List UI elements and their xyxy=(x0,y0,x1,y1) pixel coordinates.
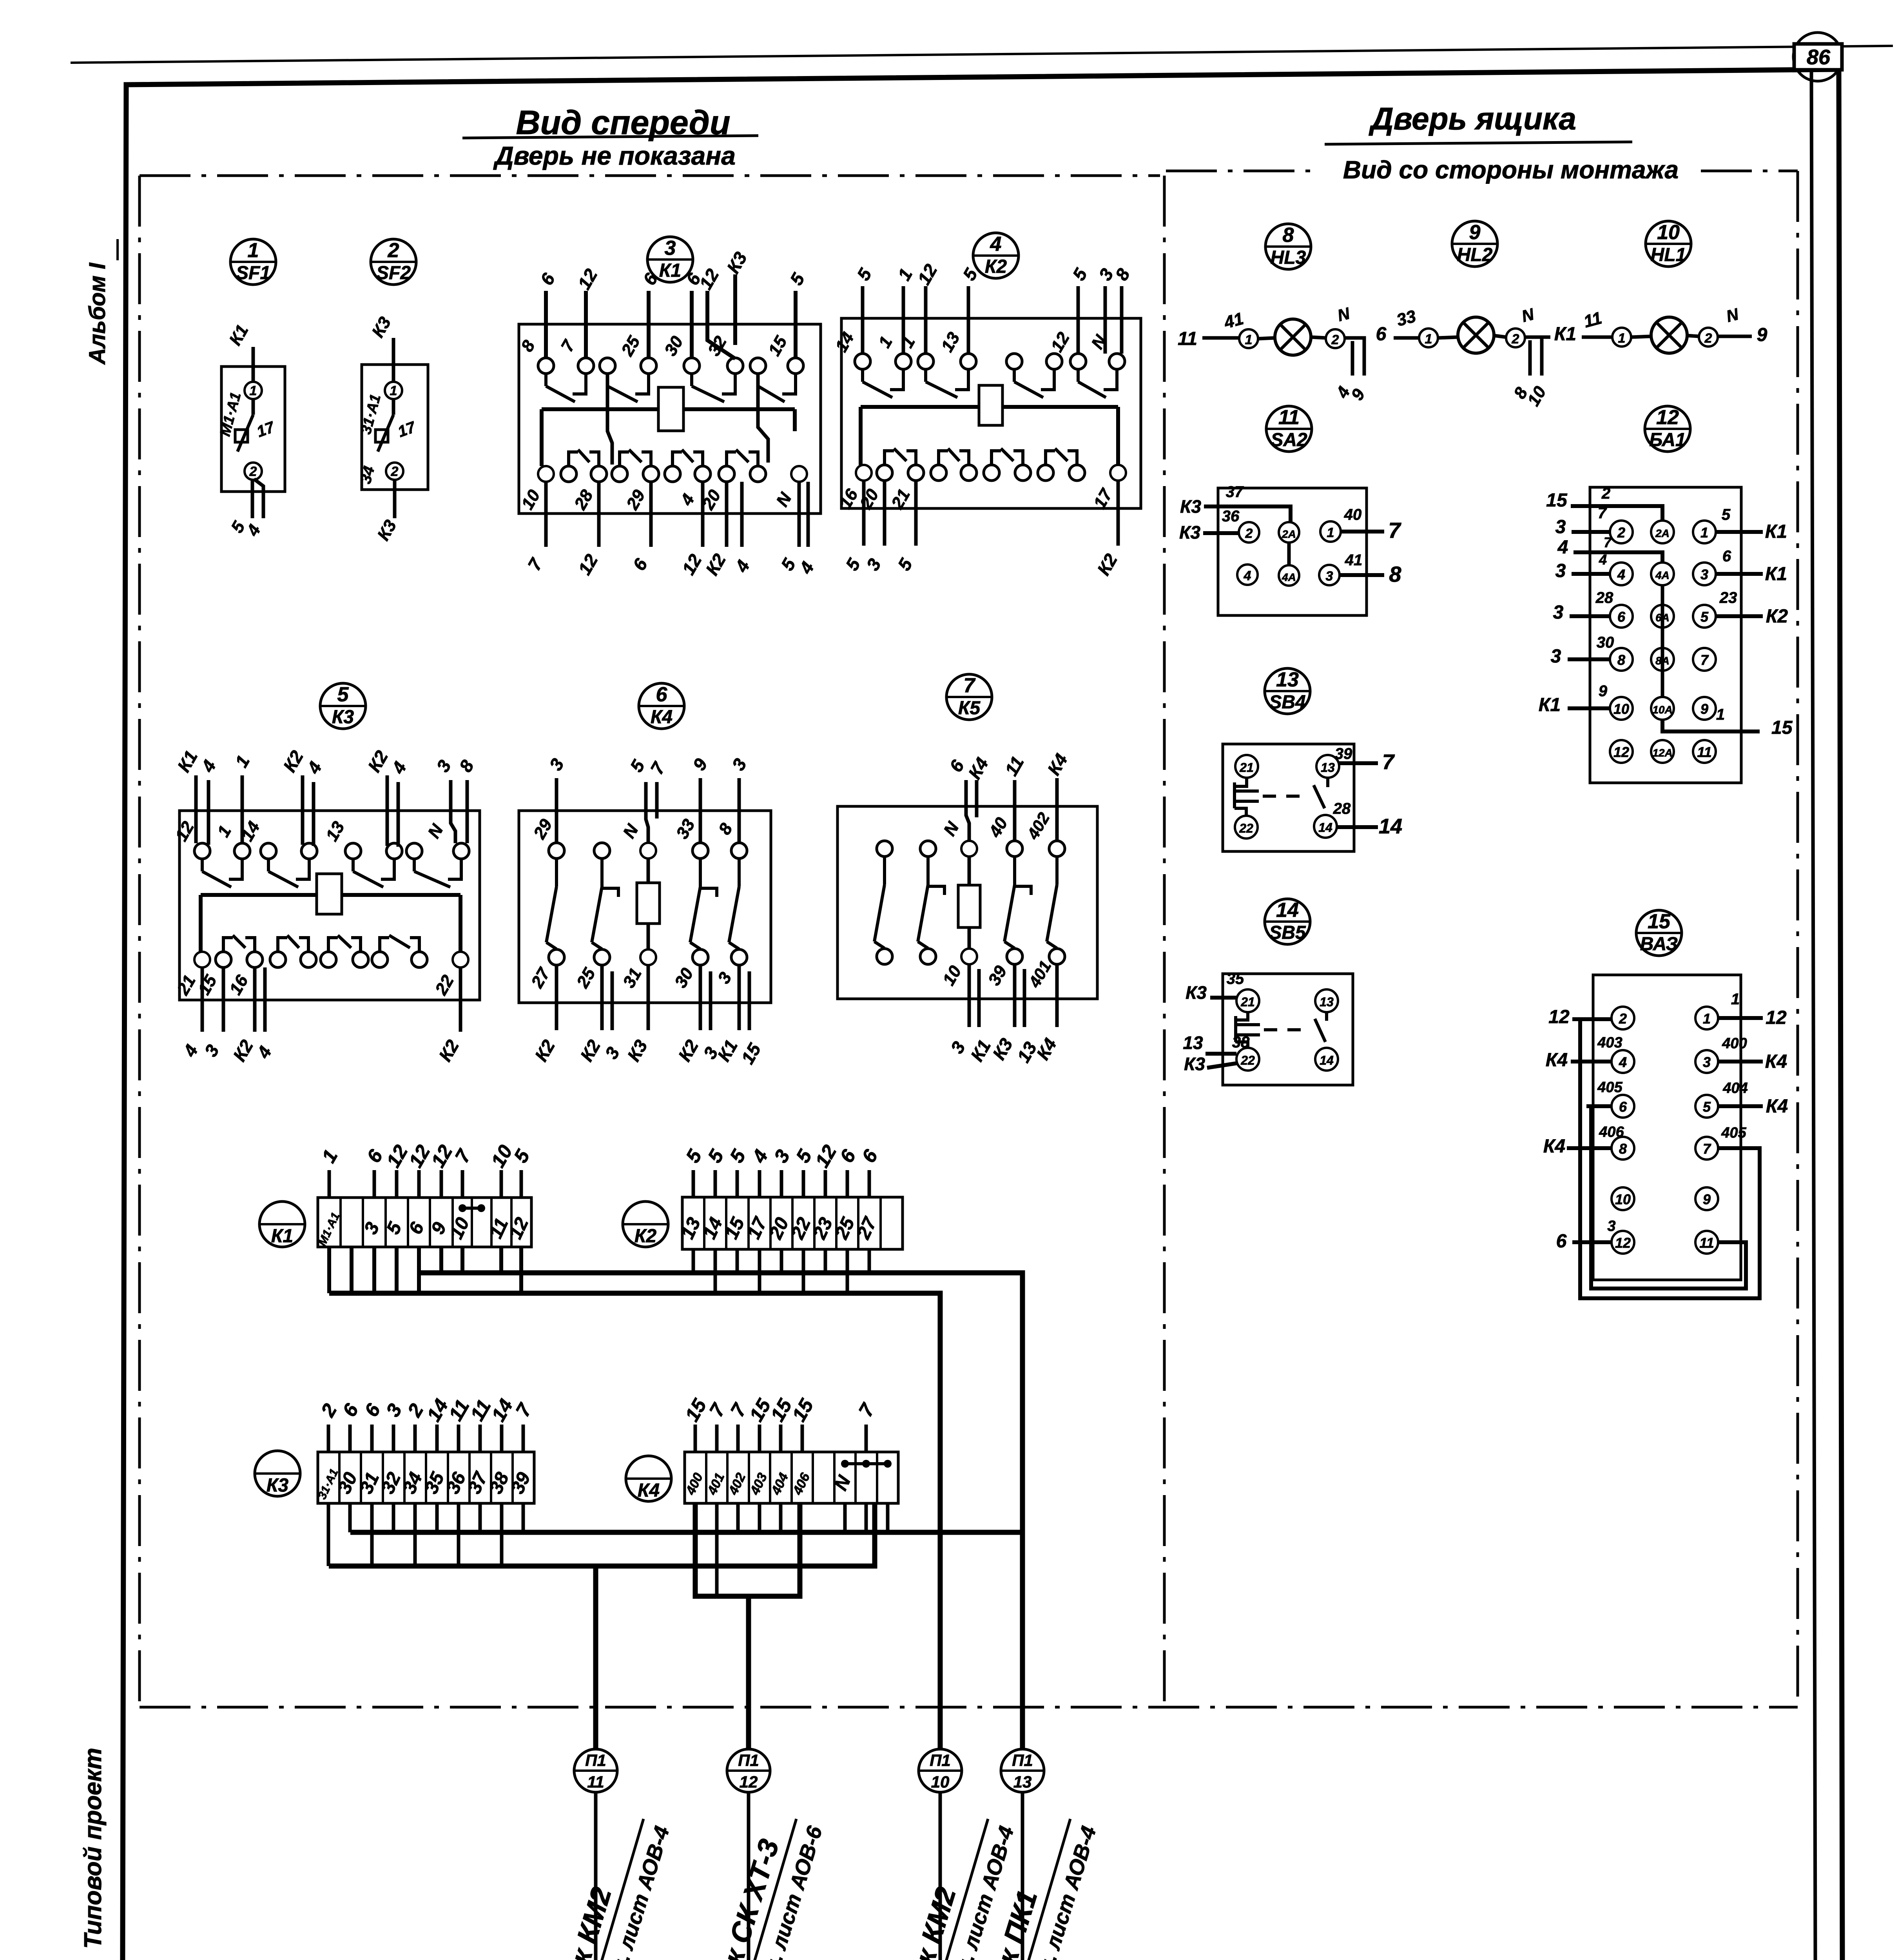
svg-text:10: 10 xyxy=(1613,701,1629,717)
svg-text:22: 22 xyxy=(1240,1053,1255,1067)
svg-text:14: 14 xyxy=(1318,820,1332,835)
strip designator K3 xyxy=(255,1451,300,1496)
svg-text:28: 28 xyxy=(1595,589,1613,606)
svg-text:5: 5 xyxy=(337,683,349,706)
svg-text:5: 5 xyxy=(1700,609,1709,625)
svg-text:13: 13 xyxy=(1183,1033,1203,1053)
svg-text:405: 405 xyxy=(1721,1125,1746,1141)
svg-text:28: 28 xyxy=(1333,800,1351,817)
svg-text:К1: К1 xyxy=(1765,521,1787,542)
wire bus C xyxy=(350,1530,1022,1535)
svg-text:5: 5 xyxy=(1703,1099,1711,1115)
svg-text:Дверь ящика: Дверь ящика xyxy=(1369,101,1576,136)
outer thin border top xyxy=(71,46,1893,63)
svg-text:1: 1 xyxy=(1327,525,1334,540)
svg-text:4: 4 xyxy=(1617,566,1625,583)
svg-text:13: 13 xyxy=(1320,995,1334,1009)
svg-text:12: 12 xyxy=(1766,1007,1787,1028)
svg-text:П1: П1 xyxy=(738,1751,759,1769)
svg-text:П1: П1 xyxy=(930,1751,951,1769)
svg-text:2: 2 xyxy=(1245,526,1253,541)
svg-text:1: 1 xyxy=(248,239,259,262)
svg-text:К1: К1 xyxy=(1554,324,1576,345)
svg-text:404: 404 xyxy=(1722,1080,1748,1096)
connector VA3 xyxy=(1543,975,1788,1298)
dash-dot boundary center divider xyxy=(1163,176,1166,1707)
strip designator K1 xyxy=(259,1201,305,1247)
svg-text:13: 13 xyxy=(1013,1773,1032,1791)
svg-text:2А: 2А xyxy=(1282,528,1296,540)
svg-text:4: 4 xyxy=(990,233,1002,256)
svg-text:6: 6 xyxy=(1619,1099,1627,1115)
relay K3 xyxy=(172,747,480,1065)
designator 5/K3 xyxy=(320,683,366,729)
svg-text:Типовой проект: Типовой проект xyxy=(80,1748,107,1949)
svg-text:3: 3 xyxy=(1555,561,1566,581)
svg-text:2А: 2А xyxy=(1655,527,1670,539)
svg-text:23: 23 xyxy=(1719,589,1737,606)
relay K2 xyxy=(832,260,1141,579)
svg-text:1: 1 xyxy=(1716,706,1725,723)
svg-text:К4: К4 xyxy=(1543,1136,1565,1157)
svg-text:2: 2 xyxy=(1617,524,1625,541)
svg-text:К3: К3 xyxy=(1179,522,1200,543)
svg-text:406: 406 xyxy=(1599,1124,1624,1140)
wire bus A xyxy=(420,1273,1022,1749)
svg-text:6: 6 xyxy=(1556,1231,1567,1252)
title underline xyxy=(462,136,758,138)
designator 15/VA3 xyxy=(1636,910,1682,956)
svg-text:30: 30 xyxy=(1597,634,1614,651)
svg-text:6: 6 xyxy=(656,683,668,706)
svg-text:К3: К3 xyxy=(266,1475,289,1496)
svg-text:3: 3 xyxy=(1700,566,1708,583)
terminal strip K3 xyxy=(315,1395,536,1566)
dash-dot boundary left xyxy=(138,176,141,1707)
svg-text:К3: К3 xyxy=(1184,1054,1205,1074)
svg-text:10: 10 xyxy=(1657,221,1680,244)
svg-text:9: 9 xyxy=(1757,325,1767,345)
button SB5 xyxy=(1183,970,1353,1085)
svg-text:11: 11 xyxy=(1178,328,1197,349)
svg-text:11: 11 xyxy=(1699,1235,1714,1251)
designator 14/SB5 xyxy=(1265,899,1310,944)
svg-text:41: 41 xyxy=(1345,552,1363,569)
svg-text:403: 403 xyxy=(1597,1034,1622,1051)
svg-text:8: 8 xyxy=(1619,1141,1627,1157)
svg-text:HL3: HL3 xyxy=(1271,247,1306,268)
svg-text:10А: 10А xyxy=(1652,704,1672,716)
switch SA2 xyxy=(1179,483,1401,615)
svg-text:К3: К3 xyxy=(332,707,354,728)
terminal strip K2 xyxy=(677,1141,903,1293)
cable marker P1/12 xyxy=(718,1729,827,1960)
svg-text:12: 12 xyxy=(1656,406,1679,429)
svg-text:14: 14 xyxy=(1320,1053,1334,1067)
svg-text:3: 3 xyxy=(1607,1218,1615,1234)
svg-text:12: 12 xyxy=(740,1773,758,1791)
svg-text:13: 13 xyxy=(1276,668,1299,691)
svg-text:К1: К1 xyxy=(1539,695,1561,715)
svg-text:Вид со стороны монтажа: Вид со стороны монтажа xyxy=(1343,156,1679,184)
designator 6/K4 xyxy=(639,683,684,729)
dash-dot boundary bottom xyxy=(140,1706,1798,1709)
svg-text:22: 22 xyxy=(1239,821,1253,835)
wire U-loop under K4 xyxy=(695,1503,800,1596)
svg-text:38: 38 xyxy=(1232,1034,1250,1051)
svg-text:13: 13 xyxy=(1321,760,1335,775)
cable marker P1/11 xyxy=(565,1729,674,1960)
breaker SF2 xyxy=(357,314,428,544)
dash-dot boundary top right half xyxy=(1166,170,1319,172)
svg-text:8: 8 xyxy=(1283,224,1294,247)
designator 9/HL2 xyxy=(1452,221,1497,267)
svg-text:2: 2 xyxy=(391,464,399,479)
svg-text:10: 10 xyxy=(1615,1191,1631,1207)
svg-text:39: 39 xyxy=(1335,745,1352,762)
svg-text:40: 40 xyxy=(1344,506,1362,523)
svg-text:36: 36 xyxy=(1222,508,1240,525)
svg-text:7: 7 xyxy=(1604,534,1612,550)
strip designator K4 xyxy=(626,1456,671,1501)
designator 7/K5 xyxy=(946,674,992,720)
svg-text:К4: К4 xyxy=(638,1480,660,1501)
svg-text:2: 2 xyxy=(1704,331,1712,346)
svg-text:7: 7 xyxy=(964,674,976,697)
title underline right xyxy=(1325,142,1632,144)
svg-text:4А: 4А xyxy=(1655,569,1670,581)
svg-text:7: 7 xyxy=(1703,1141,1711,1157)
svg-text:4: 4 xyxy=(1599,552,1607,568)
svg-text:6: 6 xyxy=(1376,324,1387,345)
svg-text:4: 4 xyxy=(1619,1054,1627,1070)
svg-text:3: 3 xyxy=(665,237,676,260)
svg-text:К2: К2 xyxy=(634,1226,657,1247)
svg-text:37: 37 xyxy=(1226,483,1244,501)
svg-text:15: 15 xyxy=(1648,910,1671,933)
svg-text:6: 6 xyxy=(1722,548,1731,565)
relay K4 xyxy=(519,755,771,1068)
svg-text:7: 7 xyxy=(1388,518,1401,543)
svg-text:2: 2 xyxy=(1619,1011,1627,1027)
svg-text:15: 15 xyxy=(1546,490,1568,511)
svg-text:86: 86 xyxy=(1807,45,1831,69)
svg-text:Альбом I: Альбом I xyxy=(85,262,110,365)
relay K5 xyxy=(838,750,1097,1066)
svg-text:400: 400 xyxy=(1722,1035,1747,1052)
wire feeder to P1/12 xyxy=(746,1596,751,1749)
svg-text:9: 9 xyxy=(1599,682,1608,700)
dash-dot boundary top left half xyxy=(140,174,1160,177)
svg-text:SA2: SA2 xyxy=(1271,430,1307,450)
svg-text:8: 8 xyxy=(1389,562,1401,586)
svg-text:2: 2 xyxy=(249,464,257,479)
svg-text:3: 3 xyxy=(1326,569,1333,584)
svg-text:11: 11 xyxy=(1697,744,1711,760)
svg-text:2: 2 xyxy=(1512,332,1519,347)
svg-text:1: 1 xyxy=(250,383,257,398)
svg-text:3: 3 xyxy=(1553,602,1564,623)
svg-text:П1: П1 xyxy=(1012,1751,1033,1769)
svg-text:4: 4 xyxy=(1557,537,1568,558)
svg-text:SB5: SB5 xyxy=(1269,922,1306,943)
lamp circuit HL3 xyxy=(1178,304,1369,404)
svg-text:14: 14 xyxy=(1276,899,1299,922)
designator 11/SA2 xyxy=(1266,406,1312,452)
svg-text:1: 1 xyxy=(1245,332,1253,347)
breaker SF1 xyxy=(217,321,285,539)
svg-text:3: 3 xyxy=(1555,517,1566,537)
svg-text:8: 8 xyxy=(1617,652,1625,668)
svg-text:12А: 12А xyxy=(1652,747,1672,759)
svg-text:12: 12 xyxy=(1548,1007,1570,1027)
svg-text:7: 7 xyxy=(1598,505,1607,522)
svg-text:К4: К4 xyxy=(1766,1096,1788,1117)
page number 86 box xyxy=(1793,33,1842,81)
svg-text:SF2: SF2 xyxy=(376,263,411,283)
svg-text:21: 21 xyxy=(1240,995,1255,1009)
svg-text:1: 1 xyxy=(1731,991,1740,1008)
svg-text:4А: 4А xyxy=(1282,571,1296,583)
designator 13/SB4 xyxy=(1265,668,1310,714)
svg-text:SB4: SB4 xyxy=(1269,692,1305,713)
svg-text:К3: К3 xyxy=(1186,982,1207,1003)
cable marker P1/10 xyxy=(909,1729,1019,1960)
svg-text:ВАЗ: ВАЗ xyxy=(1640,934,1678,955)
strip designator K2 xyxy=(623,1201,668,1247)
wire bus D xyxy=(329,1504,875,1566)
svg-text:9: 9 xyxy=(1700,701,1708,717)
designator 3/K1 xyxy=(647,237,693,282)
designator 10/HL1 xyxy=(1646,221,1691,267)
lamp circuit HL2 xyxy=(1376,305,1576,409)
svg-text:10: 10 xyxy=(931,1773,950,1791)
svg-text:11: 11 xyxy=(1278,406,1300,429)
svg-text:К5: К5 xyxy=(958,698,981,719)
button SB4 xyxy=(1223,744,1402,851)
wire bus B xyxy=(329,1293,940,1750)
svg-text:12: 12 xyxy=(1613,744,1629,760)
svg-text:12: 12 xyxy=(1615,1235,1631,1251)
svg-text:1: 1 xyxy=(1703,1011,1711,1027)
designator 12/BA1 xyxy=(1645,406,1690,452)
designator 8/HL3 xyxy=(1265,224,1311,269)
svg-text:2: 2 xyxy=(388,239,399,262)
svg-text:БА1: БА1 xyxy=(1649,430,1686,450)
cable marker P1/13 xyxy=(992,1729,1101,1960)
svg-text:К2: К2 xyxy=(985,256,1007,277)
page-number column line xyxy=(1811,70,1816,1960)
svg-text:11: 11 xyxy=(587,1773,604,1791)
svg-text:2: 2 xyxy=(1331,332,1339,347)
svg-text:9: 9 xyxy=(1703,1191,1711,1207)
wire feeder to P1/11 xyxy=(593,1566,598,1749)
svg-text:35: 35 xyxy=(1227,970,1244,987)
svg-text:2: 2 xyxy=(1601,485,1610,502)
svg-text:5: 5 xyxy=(1722,506,1731,523)
svg-text:К1: К1 xyxy=(659,260,681,281)
svg-text:Дверь не показана: Дверь не показана xyxy=(493,141,736,170)
svg-text:К3: К3 xyxy=(1180,496,1201,517)
designator 2/SF2 xyxy=(371,239,416,285)
svg-text:1: 1 xyxy=(1618,331,1626,346)
svg-text:К4: К4 xyxy=(1765,1051,1787,1072)
svg-text:К2: К2 xyxy=(1766,606,1788,627)
dash-dot boundary right xyxy=(1796,171,1799,1707)
svg-text:7: 7 xyxy=(1382,750,1395,774)
svg-text:К4: К4 xyxy=(1546,1050,1568,1071)
svg-text:3: 3 xyxy=(1551,646,1561,667)
svg-text:К4: К4 xyxy=(651,707,673,728)
svg-text:SF1: SF1 xyxy=(236,263,270,283)
relay K1 xyxy=(517,248,821,579)
svg-text:К1: К1 xyxy=(1765,564,1787,584)
svg-text:15: 15 xyxy=(1771,717,1793,738)
svg-text:1: 1 xyxy=(390,383,397,398)
connector BA1 xyxy=(1539,485,1793,783)
svg-text:21: 21 xyxy=(1239,760,1254,775)
svg-text:7: 7 xyxy=(1700,652,1709,668)
terminal strip K4 xyxy=(681,1395,898,1532)
terminal strip K1 xyxy=(315,1141,534,1293)
designator 1/SF1 xyxy=(230,239,276,285)
lamp circuit HL1 xyxy=(1582,305,1767,353)
svg-text:1: 1 xyxy=(1700,524,1708,541)
designator 4/K2 xyxy=(973,233,1019,278)
svg-text:HL2: HL2 xyxy=(1457,245,1493,265)
svg-text:1: 1 xyxy=(1425,332,1432,347)
svg-text:HL1: HL1 xyxy=(1651,245,1686,265)
svg-text:К1: К1 xyxy=(271,1226,293,1247)
svg-text:405: 405 xyxy=(1597,1079,1622,1096)
svg-text:4: 4 xyxy=(1244,568,1251,583)
svg-text:6: 6 xyxy=(1617,609,1626,625)
svg-text:3: 3 xyxy=(1703,1054,1711,1070)
svg-text:9: 9 xyxy=(1469,221,1481,244)
svg-text:П1: П1 xyxy=(585,1751,606,1769)
svg-text:14: 14 xyxy=(1379,815,1402,838)
